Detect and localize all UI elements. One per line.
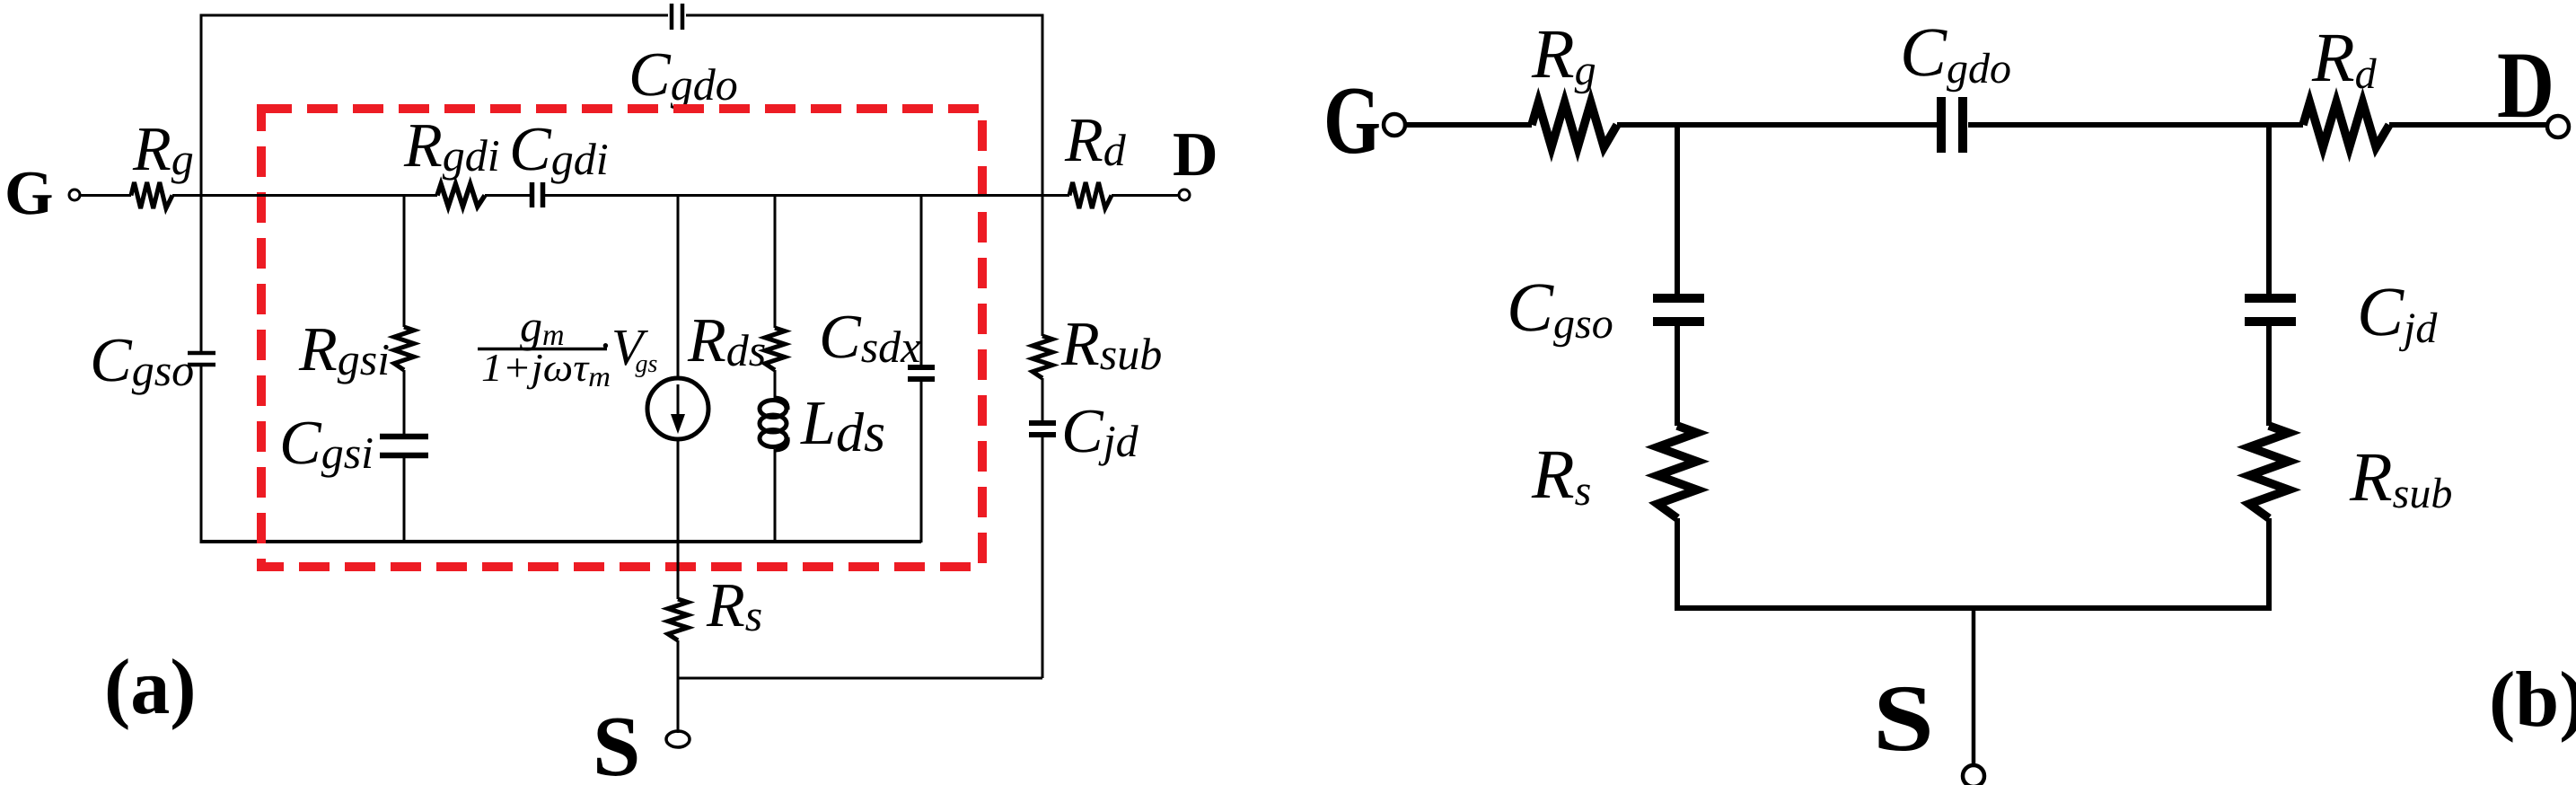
svg-text:S: S xyxy=(593,698,640,785)
capacitor Cgdo (a) symbol xyxy=(672,4,682,30)
wire Rds branch (a) xyxy=(774,196,777,542)
svg-text:G: G xyxy=(1323,67,1381,174)
wire bottom (b) xyxy=(1677,605,2269,611)
resistor Rd (b) xyxy=(2303,102,2389,147)
svg-text:D: D xyxy=(2497,32,2554,137)
wire gate-drain line (b) xyxy=(1404,122,2548,128)
svg-text:Cjd: Cjd xyxy=(2357,272,2438,352)
resistor Rgsi (a) xyxy=(394,327,414,370)
resistor Rds (a) xyxy=(765,328,785,370)
svg-text:Cjd: Cjd xyxy=(1061,397,1139,466)
node G open circle (a) xyxy=(69,190,80,200)
resistor Rsub (b) xyxy=(2249,426,2289,518)
capacitor Csdx (a) symbol xyxy=(908,367,935,379)
svg-text:Cgsi: Cgsi xyxy=(279,409,374,478)
intrinsic-device red dashed box (a) xyxy=(261,109,982,567)
wire source branch Rs (a) xyxy=(677,542,680,733)
wire Rgsi branch (a) xyxy=(403,196,406,542)
node S open circle (b) xyxy=(1963,765,1984,785)
resistor Rs (b) xyxy=(1657,426,1697,518)
capacitor Cjd (b) symbol xyxy=(2245,298,2296,322)
wire left vertical (a) xyxy=(200,14,203,544)
node D open circle (b) xyxy=(2547,116,2569,137)
svg-text:Rgdi: Rgdi xyxy=(403,111,500,181)
svg-text:D: D xyxy=(1173,120,1218,190)
wire lower horizontal to S node (a) xyxy=(679,677,1042,680)
svg-text:Csdx: Csdx xyxy=(819,303,920,372)
capacitor Cgso (a) symbol xyxy=(188,353,215,365)
wire right vertical (a) xyxy=(1042,14,1044,679)
resistor Rgdi (a) xyxy=(437,184,485,207)
current source circle (a) xyxy=(647,378,708,439)
svg-text:Cgso: Cgso xyxy=(90,326,194,395)
wire left branch (b) xyxy=(1675,125,1680,611)
svg-text:Rg: Rg xyxy=(132,115,194,184)
wire bottom inner (a) xyxy=(201,540,921,543)
node G open circle (b) xyxy=(1384,114,1405,136)
svg-text:Rd: Rd xyxy=(2311,18,2378,98)
svg-text:S: S xyxy=(1873,666,1934,771)
svg-text:Rg: Rg xyxy=(1531,14,1596,94)
svg-text:Cgso: Cgso xyxy=(1507,268,1613,348)
capacitor Cjd (a) symbol xyxy=(1029,423,1056,435)
wire current source branch (a) xyxy=(677,196,680,542)
svg-text:Rd: Rd xyxy=(1064,106,1127,175)
capacitor Cgdo (b) symbol xyxy=(1941,97,1963,153)
node D open circle (a) xyxy=(1179,190,1190,200)
resistor Rg (b) xyxy=(1532,102,1617,147)
capacitor Cgsi (a) symbol xyxy=(380,437,428,455)
capacitor Cgdi (a) symbol xyxy=(532,182,543,207)
wire gate line (a) xyxy=(80,194,1179,197)
svg-text:Rds: Rds xyxy=(687,306,766,375)
svg-text:Rs: Rs xyxy=(706,571,762,640)
wire right branch (b) xyxy=(2266,125,2272,611)
wire Csdx branch (a) xyxy=(920,196,923,543)
inductor Lds (a) xyxy=(760,398,787,450)
node S open circle (a) xyxy=(666,731,690,747)
svg-text:(a): (a) xyxy=(104,644,197,731)
svg-text:(b): (b) xyxy=(2489,657,2576,744)
resistor Rs (a) xyxy=(668,599,688,640)
current source arrow (a) xyxy=(677,384,680,418)
svg-text:Cgdo: Cgdo xyxy=(1900,13,2011,93)
wire top loop (a) xyxy=(201,14,1042,17)
svg-text:gm: gm xyxy=(520,301,565,352)
svg-text:·: · xyxy=(600,322,611,368)
resistor Rg (a) xyxy=(131,182,172,208)
svg-text:Rgsi: Rgsi xyxy=(298,315,390,384)
svg-text:Rsub: Rsub xyxy=(1060,310,1162,379)
svg-text:Cgdo: Cgdo xyxy=(629,40,738,110)
svg-text:Cgdi: Cgdi xyxy=(509,115,609,184)
capacitor Cgso (b) symbol xyxy=(1653,298,1704,322)
svg-text:Rs: Rs xyxy=(1531,435,1591,515)
resistor Rd (a) xyxy=(1069,182,1112,208)
svg-text:Vgs: Vgs xyxy=(611,318,657,378)
resistor Rsub (a) xyxy=(1033,336,1052,378)
svg-text:Rsub: Rsub xyxy=(2349,437,2452,517)
svg-text:G: G xyxy=(4,159,53,228)
svg-text:Lds: Lds xyxy=(800,389,885,463)
wire S stub (b) xyxy=(1972,608,1976,766)
svg-text:1+jωτm: 1+jωτm xyxy=(481,346,611,392)
